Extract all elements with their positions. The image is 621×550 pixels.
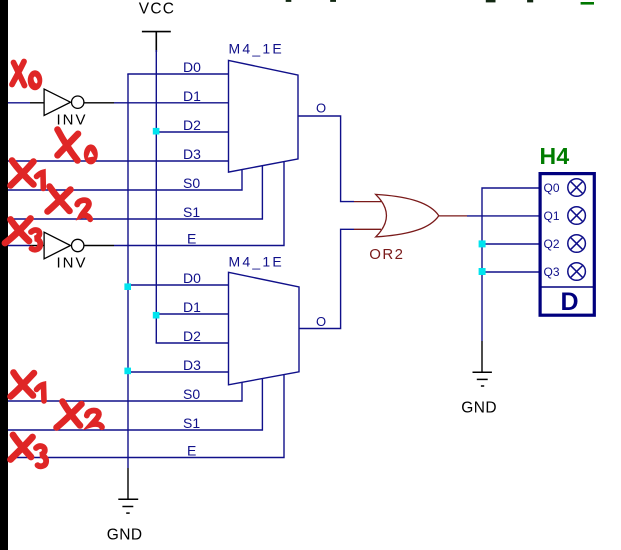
pin labels U1 xyxy=(183,59,201,247)
wire OR2 output to H4 Q1 xyxy=(439,215,539,217)
wire U1 S0 xyxy=(8,169,242,190)
wire H4 Q3 stub xyxy=(482,271,539,273)
annotation X3 upper xyxy=(5,219,40,250)
junction dot U2 D3 / GND rail xyxy=(124,368,131,375)
wire U2 D3 xyxy=(127,371,228,373)
annotation X1 upper xyxy=(11,161,44,189)
wire U2 D2 xyxy=(156,342,229,344)
label U1 M4_1E xyxy=(229,41,284,57)
wire U2 D1 xyxy=(156,313,229,315)
svg-text:D3: D3 xyxy=(183,146,201,162)
wire U1 S1 xyxy=(8,166,262,219)
wire GND rail vertical xyxy=(127,74,129,499)
inverter U3 INV xyxy=(44,89,84,116)
wire VCC rail vertical xyxy=(155,50,157,343)
svg-text:O: O xyxy=(316,101,326,116)
svg-text:E: E xyxy=(187,231,196,247)
wire U2 S0 xyxy=(8,382,242,401)
svg-text:OR2: OR2 xyxy=(369,246,404,263)
VCC label xyxy=(139,1,175,18)
svg-text:S1: S1 xyxy=(183,415,200,431)
annotation X2 upper xyxy=(48,187,91,220)
svg-text:GND: GND xyxy=(107,527,143,544)
display H4 box xyxy=(540,174,594,316)
svg-text:M4_1E: M4_1E xyxy=(229,41,284,57)
annotation X1 lower xyxy=(11,373,45,402)
junction dot H4 Q3 xyxy=(479,268,486,275)
wire H4 Q2 stub xyxy=(482,243,539,245)
wire U2 E xyxy=(8,374,284,457)
annotation X0 middle xyxy=(58,130,79,161)
label INV U4 xyxy=(57,255,88,272)
label O output U2 xyxy=(316,314,326,329)
svg-text:INV: INV xyxy=(57,111,88,128)
wire U2 output to OR2 xyxy=(299,229,381,328)
lamp Q0 xyxy=(568,179,586,197)
pin labels U2 xyxy=(183,270,201,459)
wire U1 D0 xyxy=(127,73,228,75)
junction dot H4 Q2 xyxy=(479,240,486,247)
svg-text:Q3: Q3 xyxy=(544,265,560,279)
svg-text:H4: H4 xyxy=(540,143,570,169)
svg-text:Q0: Q0 xyxy=(544,181,560,195)
junction dot U2 D0 / GND rail xyxy=(124,283,131,290)
multiplexer U2 M4_1E body xyxy=(229,272,300,385)
H4 pin labels Q0-Q3 xyxy=(544,181,560,279)
display H4 label xyxy=(540,143,570,169)
svg-text:D: D xyxy=(561,288,579,316)
wire U2 S1 xyxy=(8,378,262,430)
wire U1 D2 xyxy=(156,131,229,133)
svg-text:Q1: Q1 xyxy=(544,209,560,223)
multiplexer U1 M4_1E body xyxy=(229,60,299,172)
svg-text:D1: D1 xyxy=(183,88,201,104)
svg-text:D0: D0 xyxy=(183,270,201,286)
wire U2 D0 xyxy=(127,284,228,286)
wire U1 D3 xyxy=(8,160,229,162)
svg-text:GND: GND xyxy=(461,399,497,416)
ground symbol right xyxy=(473,372,492,386)
wire U1 output to OR2 xyxy=(298,116,381,202)
annotation X2 lower xyxy=(57,402,103,428)
wire H4 ground rail xyxy=(482,188,539,372)
label O output U1 xyxy=(316,101,326,116)
or-gate OR2 xyxy=(376,194,439,237)
ground symbol left xyxy=(118,499,138,513)
svg-text:INV: INV xyxy=(57,255,88,272)
lamp Q3 xyxy=(568,263,586,281)
lamp Q1 xyxy=(568,207,586,225)
svg-text:E: E xyxy=(187,443,196,459)
svg-text:S1: S1 xyxy=(183,204,200,220)
junction dot U2 D1 / VCC rail xyxy=(153,312,160,319)
label U2 M4_1E xyxy=(229,254,284,270)
svg-text:M4_1E: M4_1E xyxy=(229,254,284,270)
svg-text:D3: D3 xyxy=(183,357,201,373)
svg-text:D1: D1 xyxy=(183,299,201,315)
svg-text:O: O xyxy=(316,314,326,329)
label GND left xyxy=(107,527,143,544)
inverter U4 INV xyxy=(44,232,84,259)
svg-text:D0: D0 xyxy=(183,59,201,75)
label D in H4 box xyxy=(561,288,579,316)
junction dot U1 D2 / VCC rail xyxy=(153,128,160,135)
svg-text:D2: D2 xyxy=(183,328,201,344)
svg-text:D2: D2 xyxy=(183,117,201,133)
wire U1 E input from inverter xyxy=(8,162,284,246)
label OR2 xyxy=(369,246,404,263)
cropped text remnant marks top edge xyxy=(286,0,533,2)
wire U1 D1 input from inverter xyxy=(8,102,229,104)
label INV U3 xyxy=(57,111,88,128)
label GND right xyxy=(461,399,497,416)
annotation X3 lower xyxy=(11,435,47,466)
svg-text:Q2: Q2 xyxy=(544,237,560,251)
annotation X0 top xyxy=(12,62,25,86)
svg-text:S0: S0 xyxy=(183,175,200,191)
left black border bar xyxy=(0,0,8,550)
lamp Q2 xyxy=(568,235,586,253)
svg-text:S0: S0 xyxy=(183,386,200,402)
VCC power symbol xyxy=(142,32,171,52)
green dash remnant top edge xyxy=(581,2,594,5)
svg-text:VCC: VCC xyxy=(139,1,175,18)
